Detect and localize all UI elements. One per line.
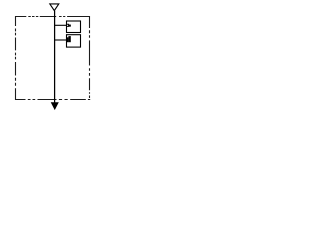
main vertical wire (antenna feed line) (54, 11, 56, 103)
bottom terminal arrow (filled, pointing down) (51, 103, 58, 110)
enclosure boundary left edge (15, 16, 17, 100)
outlet box upper cell (67, 21, 81, 33)
lower port filled arrow bar (68, 36, 70, 42)
upper port arrow tip block (69, 25, 71, 26)
enclosure boundary right edge (89, 16, 91, 98)
enclosure boundary top edge (dash-dot frame) (15, 16, 90, 18)
enclosure boundary bottom edge (15, 99, 90, 101)
background (0, 0, 104, 117)
lower port filled arrow (output, pointing left) (66, 37, 68, 42)
wire stub to upper port (55, 24, 67, 26)
wire stub to lower port (55, 39, 67, 41)
upper port open arrow (input, pointing right) (67, 24, 69, 26)
antenna symbol (inverted open triangle) (50, 4, 59, 11)
outlet box lower cell (67, 35, 81, 47)
